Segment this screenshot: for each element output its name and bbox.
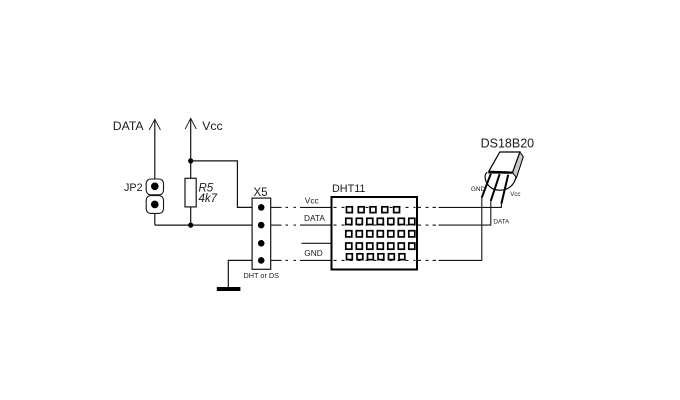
pin X5-4: [258, 257, 264, 263]
svg-text:JP2: JP2: [124, 182, 143, 194]
wire JP2 to DATA net: [154, 213, 156, 225]
svg-text:GND: GND: [471, 186, 486, 193]
wire Vcc node to X5 pin1: [191, 161, 252, 208]
junction R5 bottom node: [188, 223, 193, 228]
junction Vcc node: [188, 158, 193, 163]
power flag Vcc: [185, 118, 196, 178]
side shade: [513, 152, 524, 178]
flat top face: [489, 152, 520, 172]
body round bottom: [485, 172, 516, 190]
connector X5: [252, 198, 271, 269]
pin X5-2: [258, 222, 264, 228]
svg-text:DHT or DS: DHT or DS: [244, 271, 280, 280]
wire dashed Vcc inside DHT11: [334, 206, 416, 208]
wire dashed GND inside DHT11: [334, 259, 416, 261]
svg-text:X5: X5: [254, 187, 268, 199]
wire DATA net to X5 pin2: [155, 224, 252, 226]
sensor DHT11 body: [332, 197, 418, 270]
pin X5-1: [258, 204, 264, 210]
leg Vcc: [501, 175, 508, 204]
net NC stub at DHT11 pin3: [302, 242, 332, 244]
resistor R5: [185, 178, 196, 225]
DHT11 grid row 5: [347, 254, 405, 260]
svg-text:DATA: DATA: [304, 213, 325, 223]
svg-text:DATA: DATA: [113, 119, 145, 133]
leg GND: [482, 174, 491, 198]
DHT11 grid row 3: [346, 231, 415, 237]
svg-text:Vcc: Vcc: [202, 119, 222, 133]
svg-text:DS18B20: DS18B20: [481, 136, 535, 150]
pin JP2-2: [151, 201, 158, 208]
svg-text:4k7: 4k7: [199, 193, 218, 205]
net Vcc X5 to DHT11: [271, 206, 332, 208]
pin X5-3: [258, 240, 264, 246]
wire X5 pin4 to ground: [228, 260, 252, 287]
DHT11 grid row 4: [346, 243, 415, 249]
sensor DS18B20 package: [482, 152, 524, 204]
svg-text:DHT11: DHT11: [332, 183, 365, 195]
net DATA X5 to DHT11: [271, 224, 332, 226]
pin JP2-1: [151, 183, 158, 190]
DHT11 grid row 2: [346, 218, 415, 224]
flat edge thick: [488, 171, 513, 174]
DHT11 grid row 1: [347, 207, 400, 213]
net DATA DHT11 to DS18B20: [418, 201, 491, 226]
leg DATA: [491, 174, 500, 201]
net GND DHT11 to DS18B20: [418, 197, 482, 261]
power flag DATA: [149, 119, 160, 179]
ground: [217, 287, 241, 291]
net GND X5 to DHT11: [271, 259, 332, 261]
net Vcc DHT11 to DS18B20: [418, 203, 501, 208]
svg-text:Vcc: Vcc: [510, 191, 520, 198]
connector JP2: [146, 179, 163, 213]
svg-text:GND: GND: [304, 248, 322, 258]
svg-text:DATA: DATA: [493, 219, 510, 226]
wire dashed DATA inside DHT11: [334, 224, 416, 226]
svg-text:Vcc: Vcc: [305, 195, 319, 205]
